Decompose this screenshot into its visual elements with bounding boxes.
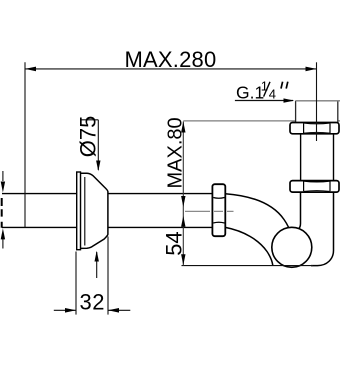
node cut-line (gray top cut of inlet) (296, 100, 340, 102)
pipe wall-side left section (2, 194, 77, 228)
wire trap inner wall curve from nut to circle (225, 194, 290, 234)
escutcheon flange cone (80, 173, 108, 248)
svg-text:MAX.280: MAX.280 (125, 47, 217, 72)
escutcheon wall plate (77, 172, 81, 250)
nut N3 horizontal-pipe hex nut (212, 184, 225, 236)
pipe horizontal middle section (flange to nut) (108, 194, 213, 228)
wire descending tube left edge (293, 192, 301, 231)
dimension MAX.280 right extension / riser centerline (316, 62, 318, 141)
dimension G.1 1/4 leader line (235, 98, 294, 102)
pipe body between nuts (301, 130, 334, 182)
dimension 32 line with outside arrows (54, 308, 131, 313)
node bottom tangent line (54 reference) (182, 265, 314, 267)
svg-text:32: 32 (80, 290, 105, 315)
wall pipe diameter cutoff arrows at left edge (1, 171, 5, 249)
svg-text:4: 4 (269, 86, 276, 101)
dimension MAX.80 / 54 vertical line (182, 122, 184, 266)
svg-text:54: 54 (161, 231, 186, 255)
dimension Ø75 leader (81, 120, 101, 172)
dimension MAX.280 left extension line (24, 62, 26, 227)
node centerline of horizontal pipe (185, 210, 234, 212)
dimension MAX.280 line (25, 67, 317, 72)
wire trap outer bottom curve from nut to bottom tangent (225, 227, 272, 265)
dimension 32 extension lines (75, 252, 77, 315)
svg-text:1: 1 (261, 79, 268, 94)
nut N2 lower hex nut on riser (290, 181, 339, 193)
dimension MAX.80 arrows (181, 122, 185, 133)
label G.1 1/4" (236, 79, 288, 103)
svg-text:MAX.80: MAX.80 (165, 117, 187, 188)
trap cup circle (272, 227, 312, 267)
node ref-plane (gray reference line MAX.80 top) (183, 120, 340, 122)
dimension 54 arrows (181, 216, 185, 227)
nut N1 top hex nut on riser (290, 123, 339, 134)
svg-text:Ø75: Ø75 (75, 116, 100, 158)
escutcheon flange inner profile line (84, 177, 86, 246)
wire descending tube right edge with bottom arc (311, 192, 334, 266)
inlet pipe G1-1/4 upper section (296, 100, 338, 123)
dimension Ø75 lower arrow (95, 251, 99, 278)
